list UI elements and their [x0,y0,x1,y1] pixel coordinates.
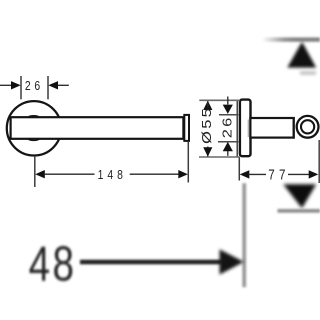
svg-text:26: 26 [25,79,44,93]
dim O55: bottom extension line [199,156,240,158]
vertical grey extension line (blurred) [242,183,246,287]
faint smudge under top-right arrow [300,72,316,75]
dim 77: right line segment [288,173,310,175]
top-right grey extension bar (blurred) [262,37,320,41]
dim O55: bottom arrowhead (down) [203,147,212,156]
front view bar end cap [184,115,189,141]
dim 26 (top): left arrowhead [11,81,21,89]
dim 26 (side): bottom tail [227,151,229,156]
svg-text:148: 148 [98,168,127,182]
dim 26 (top): right tail line [58,84,69,86]
side view wall plate [240,100,251,157]
dim 26 (top): right arrowhead [48,81,58,89]
dim 26 (side): bottom arrowhead (up) [223,142,233,151]
svg-text:77: 77 [268,166,290,183]
side view arm end cap line [293,117,295,139]
dim 26 (side): top arrowhead (down) [223,105,233,114]
dim 77: left arrowhead [240,170,250,178]
front view wall rosette circle [7,101,61,155]
svg-text:Ø55: Ø55 [201,106,215,144]
dim 77: right extension line [318,140,320,183]
dim 26 (top): left tail line [0,84,11,86]
front view bar [11,117,184,139]
dim O55: top arrowhead (up) [203,101,212,110]
dim 77: left extension line [238,158,240,181]
top-right up arrowhead (blurred) [287,42,316,68]
side view wall line [236,100,238,157]
dim 26 (top): right extension line [47,76,49,99]
dim 148: left extension line [34,156,36,187]
dim 148: right line segment [130,173,180,175]
svg-text:26: 26 [221,115,235,138]
plate-arm junction shading [247,120,249,138]
side view arm [250,118,293,138]
bottom right arrowhead (blurred) [220,249,244,274]
dim 148: right extension line [187,142,189,183]
blurry preview layer fragments [29,37,320,291]
dim 148: left line segment [44,173,95,175]
dim 77: left line segment [249,173,267,175]
dim 77: right arrowhead [309,170,319,178]
dim 26 (side): top tail [227,97,229,105]
mid-right down arrowhead (blurred) [283,184,316,208]
ring outer circle [297,116,319,138]
svg-text:48: 48 [29,237,77,292]
dim 26 (side): top extension line [219,114,238,116]
dim O55: top extension line [199,99,240,101]
mid-right grey extension bar (blurred) [278,209,320,213]
dim 148: left arrowhead [35,170,45,178]
sharp drawing layer [0,76,319,187]
dim 26 (top): left extension line [20,76,22,99]
screw post bottom ellipse [28,137,39,140]
dim O55: top line segment [207,101,209,108]
bottom dimension line (blurred) [80,260,222,265]
dim O55: bottom line segment [207,147,209,157]
screw post top ellipse [28,116,39,119]
ring inner circle [301,120,314,133]
dim 26 (side): bottom extension line [218,141,238,143]
dim 148: right arrowhead [178,170,188,178]
